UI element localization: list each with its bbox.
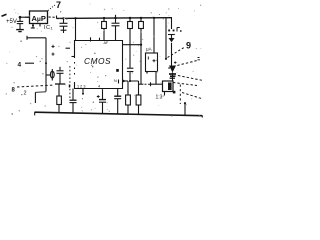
svg-text:2: 2 (24, 91, 27, 97)
svg-text:IC1: IC1 (44, 25, 54, 31)
svg-text:1 2 3: 1 2 3 (77, 85, 85, 89)
svg-text:7: 7 (56, 0, 61, 10)
svg-text:1:3: 1:3 (156, 95, 163, 101)
svg-text:AF: AF (104, 41, 110, 45)
svg-text:CMOS: CMOS (84, 56, 111, 66)
svg-text:+5V: +5V (6, 19, 17, 25)
svg-text:4: 4 (98, 85, 100, 89)
svg-text:9: 9 (186, 41, 191, 51)
svg-text:N: N (114, 79, 117, 83)
svg-text:AμP: AμP (32, 14, 46, 23)
svg-text:4: 4 (18, 62, 22, 69)
svg-text:μA: μA (146, 47, 152, 52)
